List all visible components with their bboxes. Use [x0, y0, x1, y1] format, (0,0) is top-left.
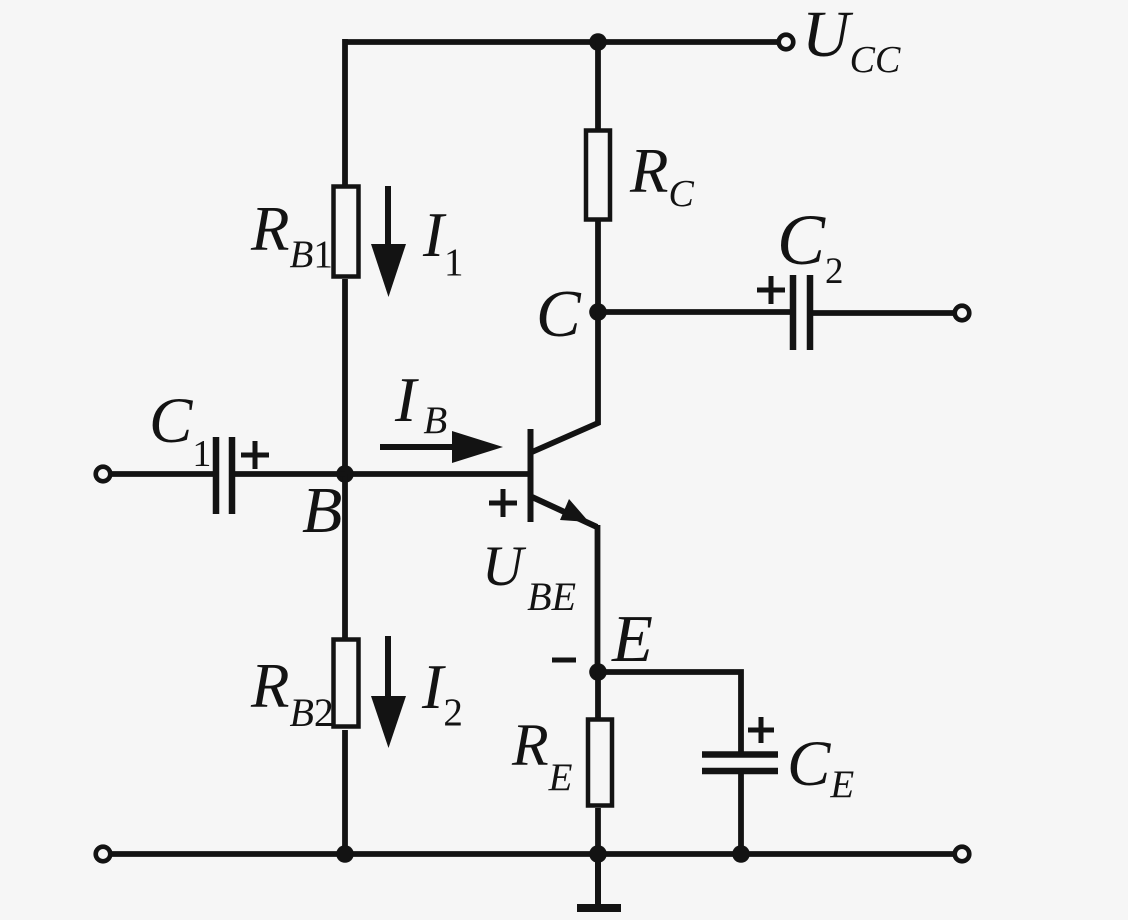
capacitor CE plate bottom: [702, 768, 778, 775]
polarity plus of C1: [241, 441, 269, 469]
wire: collector lead (node C down to transistor): [532, 312, 598, 452]
wire: node C to C2: [598, 309, 791, 315]
capacitor C1 plate left: [213, 437, 220, 514]
svg-text:C: C: [536, 277, 582, 351]
current arrow I2: [371, 636, 406, 748]
wire: C1 to node B: [235, 471, 345, 477]
node junction: CE / ground rail: [732, 845, 750, 863]
ground symbol stem: [595, 854, 601, 905]
resistor RC: [586, 131, 610, 220]
polarity plus of CE: [748, 717, 774, 743]
transistor Q1 base bar: [528, 429, 534, 522]
wire: emitter down to node E: [595, 525, 601, 672]
svg-text:B: B: [302, 474, 342, 547]
wire: RB2 to ground rail: [342, 730, 348, 854]
polarity plus of UBE: [489, 489, 517, 517]
node C dot: [589, 303, 607, 321]
wire: CE to ground rail: [738, 771, 744, 854]
wire: RB1 to node B: [342, 279, 348, 476]
terminal ground right: [955, 847, 970, 862]
capacitor C2 plate right: [807, 275, 814, 350]
resistor RB2: [334, 640, 359, 727]
terminal ground left: [96, 847, 111, 862]
wire: RC vertical from rail: [595, 42, 601, 132]
wire: C2 to output terminal: [813, 310, 956, 316]
node junction: RE / ground rail: [589, 845, 607, 863]
current arrow I1: [371, 186, 406, 297]
capacitor C1 plate right: [229, 437, 236, 514]
wire: base (node B to transistor): [345, 471, 528, 477]
node junction: top rail / RC: [589, 33, 607, 51]
polarity minus of UBE: [552, 658, 576, 663]
node B dot: [336, 465, 354, 483]
wire: RB2 from node B: [342, 474, 348, 640]
node junction: RB2 / ground rail: [336, 845, 354, 863]
polarity plus of C2: [757, 276, 785, 304]
wire: bottom ground rail: [110, 851, 956, 857]
capacitor CE plate top: [702, 751, 778, 758]
capacitor C2 plate left: [790, 275, 797, 350]
wire: input terminal to C1: [110, 471, 214, 477]
ground symbol bar: [577, 904, 621, 912]
wire: RC to node C: [595, 221, 601, 312]
wire: left vertical from rail to RB1: [342, 39, 348, 188]
node E dot: [589, 663, 607, 681]
resistor RB1: [334, 187, 359, 277]
wire: RE to ground rail: [595, 808, 601, 854]
svg-text:E: E: [611, 602, 653, 676]
terminal UCC: [779, 35, 794, 50]
resistor RE: [588, 720, 612, 806]
wire: top supply rail: [345, 39, 779, 45]
wire: node E to CE branch: [598, 672, 741, 754]
current arrow IB: [380, 431, 503, 463]
wire: node E to RE: [595, 672, 601, 720]
transistor Q1 emitter with arrow: [532, 497, 597, 527]
terminal input (signal): [96, 467, 111, 482]
terminal output top: [955, 306, 970, 321]
